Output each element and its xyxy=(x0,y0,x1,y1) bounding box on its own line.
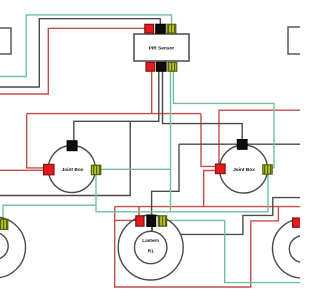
terminal L1 earth (striped) xyxy=(0,219,8,229)
terminal J1 black top xyxy=(67,141,77,151)
junction box (top-right, cut off) xyxy=(288,27,303,54)
terminal J2 black top xyxy=(237,140,247,150)
wire red: lantern feed run y=206.6 out right edge xyxy=(115,206,300,208)
terminal PIR top red xyxy=(145,24,154,33)
wire red: short link into lantern R1 red terminal left side xyxy=(115,219,137,221)
wire red: drop into lantern R1 red terminal xyxy=(138,207,140,217)
terminal PIR top black xyxy=(156,24,165,33)
lantern L1 outer circle (bottom-left, cut off) xyxy=(0,217,26,278)
wire black: PIR bottom live to left joint box xyxy=(74,71,159,141)
svg-text:Joint Box: Joint Box xyxy=(233,167,255,173)
svg-text:PIR Sensor: PIR Sensor xyxy=(149,46,175,52)
terminal PIR bottom black xyxy=(157,62,166,71)
lantern R1 inner circle xyxy=(135,231,167,263)
switch box SW1 (top-left, cut off) xyxy=(0,28,11,54)
wire green: PIR bottom earth long vertical xyxy=(170,71,172,212)
wire red: PIR top switched-live to left edge xyxy=(0,28,145,94)
wire green: PIR top earth up-left to left edge xyxy=(0,15,172,77)
terminal R1 red xyxy=(136,216,144,226)
wire black: branch down to left edge run y=195.5 xyxy=(0,121,130,195)
wire green: bottom-left lantern earth to tee xyxy=(3,205,96,218)
terminal PIR top earth (striped) xyxy=(167,24,176,33)
joint box J2 circle xyxy=(220,145,268,193)
wire red: drop to right joint box red terminal xyxy=(201,114,216,167)
wire red: loop under lantern R1 to bottom-right lantern xyxy=(115,207,279,287)
wire black: PIR bottom live to right joint box xyxy=(163,71,243,140)
wire black: lantern R1 black terminal up to y=144 run xyxy=(152,144,179,216)
terminal PIR bottom earth (striped) xyxy=(168,62,177,71)
lantern L3 outer circle (bottom-right, cut off) xyxy=(273,219,320,278)
wire black: PIR top live up-left to left edge xyxy=(0,19,160,87)
wire green: left joint box earth to vertical xyxy=(101,168,171,170)
lantern L3 inner circle xyxy=(289,236,315,262)
wire green: PIR bottom earth to right joint box xyxy=(173,71,274,168)
terminal J2 red left xyxy=(216,164,226,174)
wire red: drop to left joint box red terminal xyxy=(27,114,44,168)
terminal J1 earth right (striped) xyxy=(91,165,100,174)
terminal J1 red left xyxy=(44,164,54,174)
wire green: lantern R1 earth out right edge xyxy=(167,220,301,282)
wire black: stub lantern R1 terminal to inner circle xyxy=(151,227,153,232)
wire black: staircase from lantern R1 to right edge xyxy=(181,198,301,235)
wire green: left joint box down, long run y=211.8, up to right joint box xyxy=(96,175,268,212)
terminal J2 earth right (striped) xyxy=(263,165,272,174)
terminal R1 earth (striped) xyxy=(158,216,166,226)
terminal L3 red xyxy=(293,218,302,227)
svg-text:Lantern: Lantern xyxy=(142,238,159,243)
terminal R1 black xyxy=(147,215,156,226)
joint box J1 circle xyxy=(48,146,95,193)
wire red: second feed from left edge to left joint box xyxy=(0,169,44,171)
wire red: right joint box red terminal down to lantern run xyxy=(204,171,216,207)
PIR sensor U1 body xyxy=(134,34,189,61)
svg-text:Joint Box: Joint Box xyxy=(62,167,84,173)
wire red: horizontal run y=113.6 between joint boxes xyxy=(27,113,201,115)
svg-text:R1: R1 xyxy=(148,249,154,254)
lantern R1 outer circle xyxy=(118,215,183,280)
wire red: right joint box red terminal up and out right edge xyxy=(219,110,300,164)
wire red: PIR bottom red down to main run xyxy=(151,71,153,114)
terminal PIR bottom red xyxy=(146,62,155,71)
lantern L1 inner circle xyxy=(0,233,8,260)
wire black: right joint box live out right edge y=144 xyxy=(179,143,300,145)
